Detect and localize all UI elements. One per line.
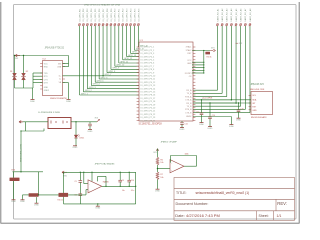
svg-text:IO_GPIO_P8_24: IO_GPIO_P8_24 <box>141 120 157 122</box>
svg-text:R15 1k: R15 1k <box>58 199 64 201</box>
svg-text:TITLE:: TITLE: <box>176 191 187 195</box>
diode D1 TVS <box>13 73 17 76</box>
svg-text:TXD: TXD <box>44 73 48 75</box>
ground below C11 <box>180 126 184 129</box>
image outer edge left <box>0 2 3 223</box>
svg-text:3V3: 3V3 <box>211 48 214 50</box>
wire D1 to gnd rail <box>13 80 15 88</box>
svg-text:10k: 10k <box>160 162 163 164</box>
svg-text:10u: 10u <box>122 190 125 192</box>
svg-text:IO_GPIO_P08: IO_GPIO_P08 <box>107 8 109 22</box>
wire SP1 right pin to 3V3 <box>71 121 97 123</box>
junction bus to SCL <box>231 99 233 101</box>
svg-text:IO_GPIO_P09: IO_GPIO_P09 <box>111 8 113 22</box>
title block row line 2 <box>174 198 295 200</box>
svg-text:C5: C5 <box>74 181 76 183</box>
supply 3V3 arrow at SP1 <box>97 119 100 122</box>
svg-text:GND: GND <box>44 87 49 89</box>
capacitor C10 <box>127 179 131 182</box>
wire U3 feedback <box>191 165 197 167</box>
svg-text:−: − <box>89 184 90 186</box>
connector JP1 pins <box>79 24 81 26</box>
junction divider tap <box>157 168 159 170</box>
svg-text:3V3: 3V3 <box>58 63 61 65</box>
svg-text:SN65C1168EPW: SN65C1168EPW <box>50 98 68 100</box>
title block outer frame <box>174 178 295 221</box>
svg-text:JP$4.08 3V3: JP$4.08 3V3 <box>251 84 265 86</box>
svg-text:+: + <box>89 191 90 193</box>
wire IC1 GND2 pin to ground <box>193 115 231 117</box>
junction rail <box>20 171 21 172</box>
resistor R6 <box>156 157 159 165</box>
svg-text:IO_GPIO_P10: IO_GPIO_P10 <box>115 8 117 22</box>
svg-text:IO_GPIO_P7_7: IO_GPIO_P7_7 <box>141 66 155 68</box>
wire left rail drop <box>62 172 64 204</box>
ferrite bead FB1 <box>10 178 20 181</box>
wire C6 to bottom rail <box>79 196 81 204</box>
wire IC1 bottom pin to C11 <box>181 121 183 122</box>
wire feedback loop <box>96 176 98 181</box>
svg-text:TX_B: TX_B <box>187 106 193 108</box>
wire divider mid <box>156 165 158 172</box>
wire C13 branch <box>200 100 202 113</box>
svg-text:GPIO_9: GPIO_9 <box>112 68 119 70</box>
svg-text:IO_GPIO_P02: IO_GPIO_P02 <box>83 8 85 22</box>
off-page arrow pressure out <box>19 120 23 123</box>
op-amp U2 triangle <box>88 180 102 193</box>
svg-text:3V3: 3V3 <box>95 117 98 119</box>
sensor SP1 inner pins <box>50 121 53 124</box>
title block Sheet divider <box>255 211 257 221</box>
svg-text:VCC: VCC <box>187 60 192 62</box>
svg-text:IO_GPIO_P7_23: IO_GPIO_P7_23 <box>141 117 156 119</box>
resistor R18 <box>59 193 69 197</box>
wire ground stub <box>97 204 99 206</box>
svg-text:GND: GND <box>187 63 192 65</box>
svg-text:IO_GPIO_P13: IO_GPIO_P13 <box>126 8 128 22</box>
svg-text:R5 0k: R5 0k <box>207 57 212 59</box>
wire LED1 to ground <box>75 138 77 146</box>
svg-text:C14: C14 <box>212 115 215 117</box>
svg-text:IO_GPIO_P2_10: IO_GPIO_P2_10 <box>141 76 156 78</box>
wire rail to FB1 <box>12 172 14 178</box>
wire bottom rail <box>64 203 136 205</box>
wire C10 to output rail <box>128 182 130 186</box>
wire divider column upper <box>156 152 158 157</box>
IC IC1 body <box>139 42 193 121</box>
svg-text:IO_GPIO_P06: IO_GPIO_P06 <box>99 8 101 22</box>
net label 3V3 on JP2 column <box>236 42 239 44</box>
svg-text:IO_GPIO_P4_20: IO_GPIO_P4_20 <box>141 108 156 110</box>
wire C5 to C6 <box>79 182 81 193</box>
title block REV divider <box>275 199 277 211</box>
wire crystal branch <box>237 103 239 110</box>
wire cap C9 branch <box>119 172 121 180</box>
wire C9 to output rail <box>119 182 121 186</box>
svg-text:IO_GPIO_P3_11: IO_GPIO_P3_11 <box>141 79 156 81</box>
wire FB1 to ground <box>12 181 14 200</box>
svg-text:IO_GPIO_P14: IO_GPIO_P14 <box>130 8 132 22</box>
IC IC2 pin stubs <box>40 62 42 64</box>
wire R17 left to ground <box>23 194 29 196</box>
svg-text:SCL: SCL <box>252 95 256 97</box>
off-page arrow 3V3 right <box>210 49 213 51</box>
svg-text:C13: C13 <box>196 111 199 113</box>
ground below divider <box>156 188 160 191</box>
wire IC2 right pins to rail <box>67 56 69 67</box>
wire output rail <box>102 185 136 187</box>
svg-text:C11: C11 <box>184 123 187 125</box>
wire top rail <box>64 171 136 173</box>
resistor R5 <box>205 52 210 55</box>
wire D2 to gnd rail <box>22 80 24 88</box>
wire bundle IC1 pins to 3V3 tie <box>192 61 204 63</box>
wire IC2 TXD to GPIO bus column <box>63 75 104 77</box>
svg-text:3V3: 3V3 <box>153 152 156 154</box>
title block row line 1 <box>174 187 295 189</box>
diode D2 TVS <box>22 73 26 76</box>
wire C14 branch <box>209 103 211 117</box>
ground below C12 <box>88 128 92 131</box>
svg-text:GND2: GND2 <box>44 90 49 92</box>
svg-text:IO_GPIO_P6_14: IO_GPIO_P6_14 <box>141 88 157 90</box>
ground below IC2 left <box>31 98 35 101</box>
wire gnd rail drop <box>31 88 33 100</box>
svg-text:Document Number:: Document Number: <box>176 202 209 206</box>
wire cap C10 branch <box>128 172 130 180</box>
svg-text:D2: D2 <box>26 71 28 73</box>
svg-text:C15: C15 <box>240 108 243 110</box>
svg-text:Sheet:: Sheet: <box>259 214 269 218</box>
svg-text:GND: GND <box>252 110 257 112</box>
svg-text:IO_GPIO_P8_8: IO_GPIO_P8_8 <box>141 69 155 71</box>
wire SP1 left pin <box>19 121 48 123</box>
resistor R17 <box>29 193 39 197</box>
wire U3 output <box>184 165 191 167</box>
svg-text:RXD: RXD <box>44 67 49 69</box>
svg-text:IO_GPIO_P6_6: IO_GPIO_P6_6 <box>141 63 155 65</box>
wire IC1 to U4 SCL <box>193 99 251 101</box>
wire bundle JP1 to IC1 left pins <box>78 26 80 95</box>
junction FTDI TXD to bus <box>102 75 104 77</box>
svg-text:100k: 100k <box>185 154 189 156</box>
op-amp U3 triangle <box>170 160 184 173</box>
wire C15 to ground <box>237 112 239 119</box>
svg-text:IO_GPIO_P1_9: IO_GPIO_P1_9 <box>141 72 155 74</box>
sensor U4 pin stubs <box>249 95 251 97</box>
wire SP1 to LED1 <box>75 122 77 135</box>
ground below IC2 right <box>67 98 71 101</box>
capacitor C15 <box>237 109 241 112</box>
svg-text:IO_GPIO_P2_2: IO_GPIO_P2_2 <box>141 50 155 52</box>
ground below R17 <box>35 202 39 205</box>
svg-text:GPIO_1: GPIO_1 <box>81 93 88 95</box>
wire cap column <box>79 172 81 180</box>
wire D1 column <box>13 56 15 74</box>
title block row line 3 <box>174 210 295 212</box>
wire right rail drop <box>134 172 136 204</box>
ground below LED1 <box>73 144 77 147</box>
wire SP1 wrap below <box>24 122 26 131</box>
wire IC2 right lower pin to ground <box>63 81 69 83</box>
wire R17 aux ground <box>35 197 37 203</box>
svg-text:IO_GPIO_P1_17: IO_GPIO_P1_17 <box>141 98 156 100</box>
svg-text:1/1: 1/1 <box>277 214 282 218</box>
svg-text:I2C/SPI: I2C/SPI <box>185 73 192 75</box>
svg-text:D1: D1 <box>10 71 12 73</box>
ground left of R17 <box>21 198 25 201</box>
svg-text:GPIO_5: GPIO_5 <box>97 81 104 83</box>
junction on 3V3 rail at D1 <box>14 55 15 56</box>
wire non-inverting input to rail <box>83 172 85 183</box>
svg-text:+: + <box>171 170 172 172</box>
IC IC1 right pin stubs <box>193 46 195 48</box>
svg-text:3V3: 3V3 <box>15 58 18 60</box>
junction bus to SDA <box>235 102 237 104</box>
connector JP2 pins <box>217 24 219 26</box>
ground below C14 <box>208 125 212 128</box>
svg-text:3V3: 3V3 <box>239 43 242 45</box>
ground right of IC1 <box>229 123 233 126</box>
svg-text:DTR: DTR <box>44 83 49 85</box>
capacitor C13 <box>200 112 204 115</box>
sensor U4 body <box>251 92 273 115</box>
svg-text:IO_GPIO_P12: IO_GPIO_P12 <box>123 8 125 22</box>
svg-text:GPIO_3: GPIO_3 <box>89 87 96 89</box>
ground below FB1 <box>12 198 16 201</box>
wire horizontal rail <box>13 171 44 173</box>
wire R17 to R18 <box>39 194 59 196</box>
wire op-amp V+ stub <box>91 172 93 181</box>
svg-text:4/27/2016 7:43 PM: 4/27/2016 7:43 PM <box>186 213 220 218</box>
svg-text:seisuneswitchfinal8_verR0_new2: seisuneswitchfinal8_verR0_new2 (1) <box>196 191 250 195</box>
ground below INA <box>96 205 100 208</box>
svg-text:R16: R16 <box>12 170 15 172</box>
capacitor C9 <box>118 179 122 182</box>
svg-text:−: − <box>171 163 172 165</box>
wire vertical from label <box>20 131 22 172</box>
LED LED1 <box>74 135 78 138</box>
wire divider lower to ground <box>156 180 158 190</box>
svg-text:CTS_B: CTS_B <box>185 112 192 114</box>
svg-text:Date:: Date: <box>175 213 185 218</box>
junction SP1 LED tap <box>75 121 76 122</box>
svg-text:JL-PRESSURE 3.3V8B: JL-PRESSURE 3.3V8B <box>38 112 60 114</box>
svg-text:IO_GPIO_P03: IO_GPIO_P03 <box>87 8 89 22</box>
capacitor C6 <box>79 192 83 195</box>
capacitor C5 <box>79 179 83 182</box>
junction 3V3 tie <box>203 50 204 51</box>
wire C14 to ground <box>209 119 211 127</box>
svg-text:GPIO_6: GPIO_6 <box>101 77 108 79</box>
svg-text:IO_GPIO_P3_19: IO_GPIO_P3_19 <box>141 104 156 106</box>
svg-text:IO_GPIO_P05: IO_GPIO_P05 <box>95 8 97 22</box>
svg-text:IO_GPIO_P3_3: IO_GPIO_P3_3 <box>141 53 155 55</box>
off-page arrow 3V3 left <box>15 54 20 57</box>
IC IC1 left pin stubs <box>137 46 139 48</box>
svg-text:IO_GPIO_P1_1: IO_GPIO_P1_1 <box>141 47 155 49</box>
svg-text:C9: C9 <box>122 180 124 182</box>
svg-text:u2uLCSP28: u2uLCSP28 <box>202 98 212 100</box>
svg-text:10k: 10k <box>160 177 163 179</box>
junction on 3V3 rail at D2 <box>23 55 24 56</box>
wire tap to op-amp <box>158 167 171 169</box>
ground below C13 <box>200 121 204 124</box>
svg-text:LED1: LED1 <box>79 138 84 140</box>
wire into R17 <box>37 191 39 195</box>
svg-text:GPIO_11: GPIO_11 <box>120 61 128 63</box>
junction SP1 wrap <box>20 130 21 131</box>
svg-text:GPIO_10: GPIO_10 <box>116 65 124 67</box>
svg-text:IO_GPIO_P4_4: IO_GPIO_P4_4 <box>141 56 155 58</box>
svg-text:IO_GPIO_P5_13: IO_GPIO_P5_13 <box>141 85 156 87</box>
svg-text:0.1u: 0.1u <box>131 190 134 192</box>
svg-text:GND2: GND2 <box>186 116 191 118</box>
svg-text:GPIO_8: GPIO_8 <box>108 71 115 73</box>
svg-text:BNO-055 CRK: BNO-055 CRK <box>250 89 265 91</box>
IC IC2 body <box>43 61 63 96</box>
svg-text:IO_GPIO_P07: IO_GPIO_P07 <box>103 8 105 22</box>
svg-text:IO_GPIO_P8_16: IO_GPIO_P8_16 <box>141 95 156 97</box>
wire R18 to inverting input <box>68 194 86 196</box>
svg-text:IO_GPIO_P5_5: IO_GPIO_P5_5 <box>141 60 155 62</box>
svg-text:IO_GPIO_P5_21: IO_GPIO_P5_21 <box>141 111 156 113</box>
svg-text:IO_GPIO_P01: IO_GPIO_P01 <box>79 8 81 22</box>
svg-text:VCC: VCC <box>44 63 49 65</box>
svg-text:IO_GPIO_P04: IO_GPIO_P04 <box>91 8 93 22</box>
wire IC1 pin to 3V3 arrow <box>192 49 210 51</box>
schematic page border <box>14 5 297 220</box>
title block Sheet value divider <box>272 211 274 221</box>
capacitor C14 <box>208 116 212 119</box>
off-page arrow VIN <box>62 171 67 174</box>
image outer edge right <box>297 2 302 223</box>
wire gnd rail under D1 D2 <box>15 87 34 89</box>
sensor SP1 body <box>48 118 71 129</box>
svg-text:R7: R7 <box>160 174 162 176</box>
wire C13 to ground <box>200 115 202 123</box>
wire IC2 left pins to bus <box>33 72 43 74</box>
wire D2 column <box>22 56 24 74</box>
svg-text:C10: C10 <box>131 180 134 182</box>
supply 3V3 arrow top <box>156 149 157 151</box>
wire 3V3 tie vertical <box>203 51 205 74</box>
wire C11 to ground <box>181 124 183 127</box>
image outer edge bottom <box>1 221 300 226</box>
svg-text:SC16IS752_JSSOP28: SC16IS752_JSSOP28 <box>139 123 163 125</box>
svg-text:IO_GPIO_P15: IO_GPIO_P15 <box>134 8 136 22</box>
svg-text:IO_GPIO_P4_12: IO_GPIO_P4_12 <box>141 82 156 84</box>
svg-text:IO_GPIO_P7_15: IO_GPIO_P7_15 <box>141 92 156 94</box>
svg-text:RX_B: RX_B <box>186 103 192 105</box>
svg-text:JP$4USB FTDI232: JP$4USB FTDI232 <box>45 47 65 49</box>
wire 3V3 rail to IC2 <box>15 54 69 56</box>
capacitor C12 on SP1 rail <box>89 122 91 124</box>
svg-text:GPIO_2: GPIO_2 <box>85 90 92 92</box>
resistor R7 <box>156 172 159 180</box>
wire bundle JP2 to IC1 right pins <box>216 26 218 90</box>
svg-text:GPIO_7: GPIO_7 <box>104 74 111 76</box>
svg-text:IO_GPIO_P6_22: IO_GPIO_P6_22 <box>141 114 156 116</box>
wire rail right drop <box>37 172 39 191</box>
ground below C15 <box>237 117 241 120</box>
svg-text:IO_GPIO_P11: IO_GPIO_P11 <box>119 8 121 22</box>
svg-text:GPIO_4: GPIO_4 <box>93 84 100 86</box>
svg-text:GPIO_13: GPIO_13 <box>128 55 136 57</box>
svg-text:IO_GPIO_P2_18: IO_GPIO_P2_18 <box>141 101 156 103</box>
wire IC1 to U4 SDA <box>193 102 251 104</box>
capacitor C11 <box>180 121 184 124</box>
svg-text:IO_GPIO_P16: IO_GPIO_P16 <box>138 8 140 22</box>
svg-text:GPIO_12: GPIO_12 <box>124 58 132 60</box>
svg-text:RTS_B: RTS_B <box>185 109 192 111</box>
junction R17 output <box>38 194 39 195</box>
svg-text:REV:: REV: <box>277 201 287 206</box>
svg-text:R6: R6 <box>160 159 162 161</box>
